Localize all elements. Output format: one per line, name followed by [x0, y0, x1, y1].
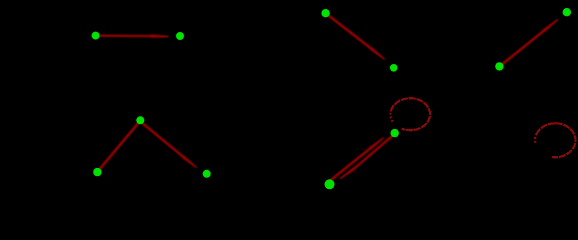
- node N6: [321, 9, 329, 17]
- self-loop L2 sparse tail: [535, 135, 536, 143]
- edge E3 shaft (N3 toward N5): [141, 122, 184, 158]
- edge E1 shaft (N1 to arrow base): [97, 35, 155, 38]
- node N10: [391, 129, 399, 137]
- edge E6a arrowhead: [369, 137, 384, 149]
- node N3: [136, 116, 144, 124]
- node N9: [495, 62, 503, 70]
- edge E5 shaft (N9 toward N8): [501, 30, 545, 65]
- edge E6b shaft (N10 toward N11, lower strand): [355, 134, 395, 168]
- node N4: [93, 168, 101, 176]
- edge E4 shaft (N6 toward N7): [327, 14, 372, 49]
- node N11: [325, 179, 335, 189]
- self-loop L2 main arc (no visible node): [536, 123, 575, 157]
- node N8: [563, 8, 571, 16]
- edge E4 arrowhead: [370, 47, 386, 60]
- edge E5 arrowhead: [543, 19, 559, 32]
- edge E2 (N3 to N4): [99, 121, 141, 171]
- edge E6a shaft (N11 toward N10, upper strand): [328, 148, 371, 182]
- node N5: [203, 170, 211, 178]
- self-loop L1 sparse tail: [390, 111, 392, 121]
- edge E3 arrowhead: [182, 155, 197, 168]
- edge E1 arrowhead: [151, 34, 169, 38]
- edge E6b arrowhead: [339, 167, 355, 179]
- node N2: [176, 32, 184, 40]
- node N7: [390, 64, 398, 72]
- self-loop L1 main arc (on node N10): [391, 98, 430, 130]
- node N1: [92, 32, 100, 40]
